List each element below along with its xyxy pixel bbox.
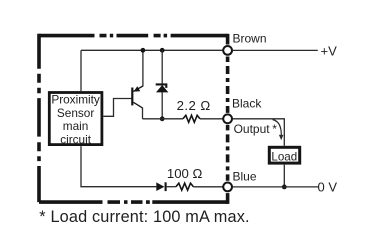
zener diode D1 anode triangle	[156, 85, 168, 92]
transistor Q1 emitter arrowhead toward base	[134, 86, 141, 91]
svg-text:*: *	[272, 122, 277, 136]
wire from resistor to Blue terminal	[193, 186, 223, 188]
svg-text:100 Ω: 100 Ω	[167, 166, 203, 181]
wire from Load bottom to 0V line	[283, 165, 285, 187]
zener diode D1 cathode lead from rail	[161, 50, 163, 84]
curved arrow from Output label to Load	[273, 120, 282, 136]
svg-text:Blue: Blue	[233, 170, 257, 184]
resistor R2 100 ohm zigzag	[176, 183, 194, 190]
sensor enclosure box right edge top segment	[226, 34, 230, 45]
svg-text:Sensor: Sensor	[57, 106, 94, 120]
output line wire from collector to resistor	[143, 118, 184, 120]
transistor Q1 (PNP) base bar	[131, 88, 133, 106]
transistor Q1 emitter lead up to rail	[142, 50, 144, 86]
+V wire from Brown terminal	[233, 49, 318, 51]
sensor enclosure box right edge bottom segment	[226, 193, 230, 204]
zener diode D1 cathode bar with right tick	[156, 84, 167, 88]
svg-text:2.2 Ω: 2.2 Ω	[177, 98, 211, 113]
resistor R1 2.2 ohm zigzag	[183, 115, 200, 122]
Load box	[269, 147, 299, 163]
sensor enclosure box right edge between Brown and Output terminals	[226, 57, 230, 113]
sensor enclosure phantom-line box bottom edge	[39, 200, 228, 204]
diode D2 cathode bar	[165, 182, 167, 191]
wire from circuit block to transistor base	[103, 99, 131, 117]
diode D2 triangle pointing right	[156, 182, 164, 191]
junction dot rail at zener	[160, 48, 165, 53]
svg-text:Output: Output	[234, 122, 271, 136]
junction dot 0V line at Load	[282, 185, 287, 190]
svg-text:Black: Black	[232, 97, 262, 111]
+V rail wire from circuit block to Brown terminal	[81, 49, 223, 51]
Blue terminal circle	[223, 183, 232, 192]
transistor Q1 emitter diagonal	[133, 86, 143, 91]
Brown terminal circle	[223, 46, 232, 55]
wire from circuit block bottom down and right to diode	[81, 146, 156, 187]
transistor Q1 collector diagonal	[133, 102, 142, 108]
svg-text:circuit: circuit	[60, 133, 92, 147]
junction dot rail at emitter	[141, 48, 146, 53]
svg-text:Proximity: Proximity	[51, 92, 100, 106]
wire diode to resistor	[167, 186, 176, 188]
svg-text:main: main	[63, 119, 89, 133]
sensor enclosure phantom-line box left edge	[37, 34, 41, 203]
proximity sensor main circuit block	[49, 93, 102, 145]
svg-text:Load: Load	[271, 151, 297, 164]
svg-text:* Load current: 100 mA max.: * Load current: 100 mA max.	[39, 208, 249, 226]
wire from circuit block top to +V rail	[80, 50, 82, 91]
wire from Output terminal to Load	[233, 119, 284, 146]
svg-text:+V: +V	[321, 44, 338, 59]
sensor enclosure box right edge between Output and Blue terminals	[226, 125, 230, 181]
svg-text:0 V: 0 V	[318, 180, 338, 195]
Output terminal circle	[223, 114, 232, 123]
zener diode D1 anode lead down to output line	[161, 92, 163, 119]
junction dot output line at zener	[160, 116, 165, 121]
svg-text:Brown: Brown	[233, 32, 267, 46]
sensor enclosure phantom-line box top edge	[39, 34, 228, 38]
transistor Q1 collector lead down to output line	[142, 108, 144, 119]
0V wire from Blue terminal	[233, 186, 318, 188]
wire from resistor to Output terminal	[200, 118, 223, 120]
